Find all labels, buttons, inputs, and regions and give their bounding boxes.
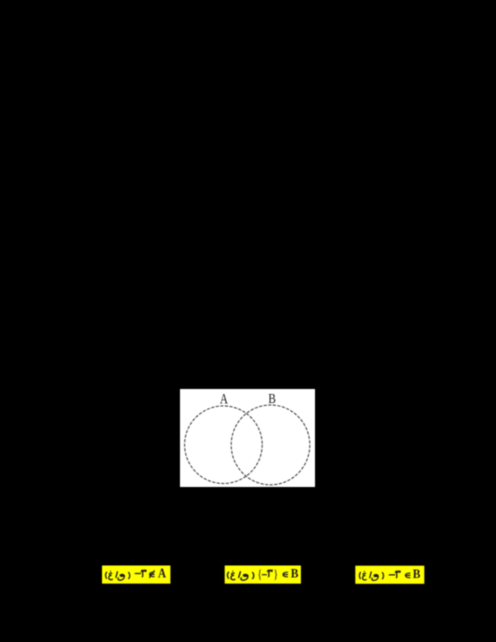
svg-text:}: } xyxy=(273,568,278,581)
svg-text:{: { xyxy=(257,568,262,581)
svg-text:B: B xyxy=(413,567,421,582)
svg-text:A: A xyxy=(158,565,166,580)
svg-text:B: B xyxy=(291,566,299,581)
